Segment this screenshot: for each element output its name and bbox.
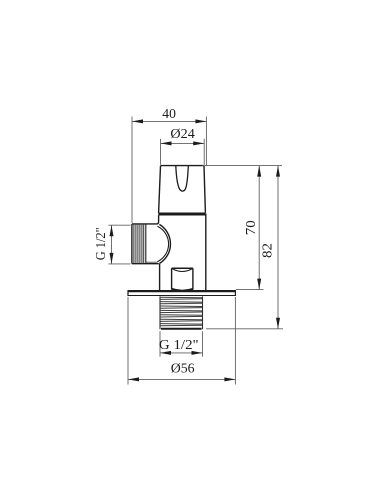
svg-text:82: 82 xyxy=(261,243,276,258)
dimension 70 xyxy=(258,166,260,290)
handle base bar xyxy=(158,213,205,216)
svg-text:G 1/2": G 1/2" xyxy=(159,338,199,353)
dimension 82 xyxy=(277,166,279,329)
thread-bottom reference extension line xyxy=(206,328,283,330)
dimension 40 xyxy=(132,117,206,224)
svg-text:70: 70 xyxy=(244,220,259,235)
top reference extension line xyxy=(202,165,282,167)
side connection end face xyxy=(131,224,133,264)
flange end caps xyxy=(128,290,235,296)
svg-text:40: 40 xyxy=(162,107,176,122)
body right edge xyxy=(205,214,207,291)
valve handle outline xyxy=(159,166,206,213)
handle groove xyxy=(176,166,189,191)
lower cylinder xyxy=(172,268,193,291)
bottom thread bottom edge xyxy=(161,328,202,330)
body left lower edge xyxy=(159,264,161,290)
svg-text:Ø24: Ø24 xyxy=(170,127,194,142)
side connection threads xyxy=(134,225,144,264)
flange-top reference extension line xyxy=(236,289,264,291)
dimension Ø24 xyxy=(161,139,205,165)
side connection bottom inner line xyxy=(147,261,158,263)
side connection bottom line xyxy=(132,263,159,265)
bottom thread block xyxy=(160,297,203,326)
side connection thread boundary xyxy=(145,224,147,264)
svg-text:G 1/2": G 1/2" xyxy=(94,227,109,260)
body left upper edge with fillet xyxy=(132,215,159,224)
body bulge outer arc xyxy=(159,224,170,263)
flange top line xyxy=(128,290,235,292)
dimension G 1/2 inch (bottom) xyxy=(160,331,203,356)
flange bottom line xyxy=(128,295,235,297)
dimension Ø56 xyxy=(128,297,235,385)
bottom thread side edges xyxy=(160,296,203,329)
body bulge inner arc xyxy=(157,226,168,261)
svg-text:Ø56: Ø56 xyxy=(171,362,195,377)
dimension G 1/2 inch (left) xyxy=(108,225,130,264)
